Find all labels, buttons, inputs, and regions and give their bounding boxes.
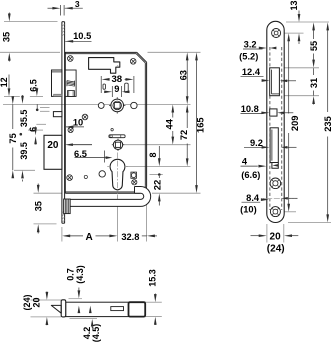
svg-text:72: 72 — [179, 130, 189, 140]
svg-text:3.2: 3.2 — [244, 40, 257, 50]
svg-text:32.8: 32.8 — [121, 232, 139, 242]
svg-text:35.5: 35.5 — [19, 110, 29, 128]
svg-text:9: 9 — [114, 84, 119, 94]
svg-text:12: 12 — [0, 77, 9, 87]
svg-text:235: 235 — [323, 116, 332, 132]
svg-text:35: 35 — [34, 201, 44, 211]
svg-text:39.5: 39.5 — [19, 142, 29, 160]
svg-text:8.4: 8.4 — [246, 193, 260, 203]
svg-text:10.5: 10.5 — [73, 31, 91, 41]
svg-text:(6.6): (6.6) — [241, 170, 260, 180]
svg-text:(5.2): (5.2) — [239, 52, 258, 62]
svg-text:4: 4 — [242, 157, 248, 167]
svg-text:44: 44 — [165, 118, 175, 129]
svg-text:35: 35 — [1, 32, 11, 42]
svg-text:(4.3): (4.3) — [75, 265, 85, 284]
svg-text:20: 20 — [270, 232, 282, 243]
svg-text:9.2: 9.2 — [250, 138, 263, 148]
svg-text:20: 20 — [47, 140, 59, 151]
svg-text:3: 3 — [75, 0, 80, 9]
svg-text:31: 31 — [309, 78, 319, 88]
svg-text:10: 10 — [73, 118, 83, 128]
svg-text:209: 209 — [290, 116, 300, 132]
svg-text:13: 13 — [289, 0, 299, 10]
svg-text:8: 8 — [148, 152, 158, 157]
svg-text:165: 165 — [195, 117, 205, 133]
svg-text:22: 22 — [152, 180, 163, 191]
svg-text:(24): (24) — [267, 244, 285, 255]
svg-text:15.3: 15.3 — [147, 269, 157, 287]
svg-text:75: 75 — [8, 133, 18, 143]
svg-text:10.8: 10.8 — [241, 104, 259, 114]
svg-text:(10): (10) — [240, 204, 257, 214]
svg-text:12.4: 12.4 — [242, 67, 261, 77]
svg-text:55: 55 — [309, 41, 319, 51]
svg-text:A: A — [85, 232, 92, 243]
svg-text:20: 20 — [31, 297, 41, 307]
